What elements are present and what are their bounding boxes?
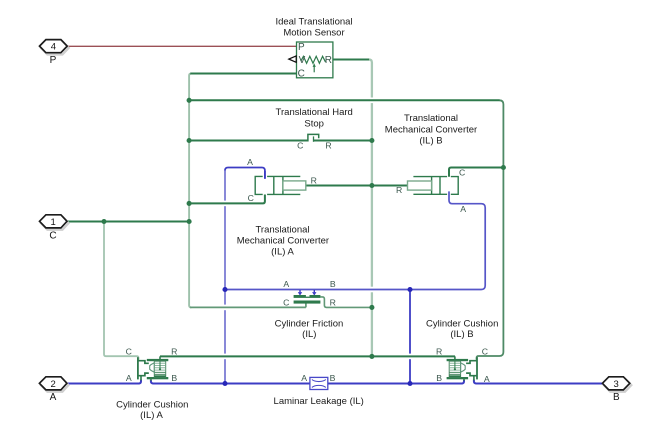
cushion A head bars [147, 359, 169, 361]
port 2 hexagon [39, 377, 67, 390]
wire red P: port 4 to sensor P [67, 45, 296, 47]
svg-text:C: C [482, 346, 488, 356]
svg-text:Ideal Translational: Ideal Translational [275, 17, 352, 28]
junction dot x503.4 y167.5 [501, 165, 506, 170]
svg-text:Laminar Leakage (IL): Laminar Leakage (IL) [274, 396, 364, 407]
wire blue converter A top [225, 168, 265, 179]
converter B rod [408, 181, 432, 190]
wire cushion rod line y=356.4 [160, 355, 455, 357]
svg-text:A: A [283, 279, 289, 289]
svg-text:(IL) A: (IL) A [271, 247, 294, 258]
svg-text:V: V [299, 55, 306, 66]
wire hard stop C side [189, 140, 308, 142]
laminar leakage symbol [301, 373, 335, 390]
cushion B bracket [476, 357, 478, 379]
svg-text:(IL) B: (IL) B [450, 329, 473, 340]
svg-text:B: B [436, 373, 442, 383]
crossing casing at x371.9 y289.5 [366, 287, 377, 293]
wire friction C side [190, 303, 306, 307]
wire pale green vertical x=104 (port1 line down to cushion A C) [104, 223, 139, 360]
cushion A port stems [141, 376, 151, 380]
svg-text:Translational: Translational [404, 113, 458, 124]
op sensor U1: Ideal Translational Motion Sensor block [289, 42, 333, 80]
svg-text:R: R [171, 346, 177, 356]
svg-text:B: B [171, 373, 177, 383]
cushion A pin line [159, 361, 161, 369]
junction dot x189.1 y140.5 [187, 138, 192, 143]
sensor arrow up [313, 67, 315, 73]
cushion B symbol (mirrored) [447, 356, 477, 380]
friction symbol [283, 279, 336, 307]
svg-text:Stop: Stop [304, 118, 324, 129]
port 4 hexagon shadow [41, 41, 69, 54]
junction dot blue x410 y289.5 [407, 287, 412, 292]
svg-text:C: C [459, 167, 465, 177]
wire top horizontal y=100.3 [189, 99, 500, 101]
cushion A bracket [137, 357, 139, 379]
wire mid green vertical x=503.4 (top line down to cushion B C) [477, 100, 504, 359]
friction arrows from blue line [300, 290, 314, 292]
converter A symbol: cylinder with rod to right [247, 157, 317, 203]
port 3 hexagon shadow [604, 379, 631, 392]
converter B piston [432, 177, 440, 195]
svg-text:R: R [325, 140, 331, 150]
svg-text:A: A [460, 204, 466, 214]
cushion A symbol [126, 346, 178, 383]
wire pale green vertical trunk x=371.9 (sensor R down to cushion line) [369, 60, 372, 356]
port 2 hexagon shadow [41, 379, 69, 392]
svg-text:2: 2 [51, 379, 56, 390]
converter B symbol: cylinder with rod to left [396, 167, 466, 214]
cushion B port stems [464, 376, 474, 380]
converter A rod [283, 181, 306, 190]
wire converter A R line [306, 185, 372, 187]
junction dot x371.9 y140.5 [369, 138, 374, 143]
cushion A R stem [159, 356, 161, 359]
wire converter B R line [372, 185, 407, 187]
svg-text:C: C [297, 140, 303, 150]
svg-text:C: C [49, 230, 56, 241]
wire converter A C line [190, 195, 265, 204]
junction dot x189.1 y100.3 [187, 98, 192, 103]
junction dot blue x410 y383.5 [407, 381, 412, 386]
svg-text:Translational: Translational [255, 224, 309, 235]
svg-text:R: R [330, 297, 336, 307]
port 4 hexagon [40, 40, 68, 53]
wire blue vertical x=410 [409, 290, 411, 384]
svg-text:A: A [50, 392, 57, 403]
svg-text:A: A [126, 373, 132, 383]
port 3 hexagon [602, 377, 629, 390]
hard stop symbol [297, 134, 331, 150]
svg-text:3: 3 [613, 379, 618, 390]
svg-text:Mechanical Converter: Mechanical Converter [237, 236, 329, 247]
port 1 hexagon shadow [41, 217, 69, 230]
crossing casing at x410 y356.4 [405, 354, 416, 360]
cushion B hatch [449, 361, 460, 377]
junction dot x189.1 y221.5 [187, 219, 192, 224]
svg-text:C: C [298, 69, 305, 80]
crossing casing at x371.9 y100.3 [366, 98, 377, 104]
crossing casing at x225 y307.4 [220, 305, 231, 311]
svg-text:B: B [613, 392, 620, 403]
wire sensor C to trunk [190, 73, 296, 75]
junction dot x104 y221.5 [101, 219, 106, 224]
svg-text:Motion Sensor: Motion Sensor [283, 28, 344, 39]
cushion A hatch [154, 361, 165, 377]
sensor spring zigzag [301, 56, 326, 63]
wire pale blue vertical x=225 [224, 171, 226, 383]
junction dot x371.9 y356.4 [369, 354, 374, 359]
crossing casing at x225 y203.4 [220, 201, 231, 207]
wire pale green vertical trunk x=189.1 (sensor C down to friction C) [189, 74, 191, 308]
wire hard stop R side [314, 140, 372, 142]
svg-text:Mechanical Converter: Mechanical Converter [385, 124, 477, 135]
wire blue main port2 to port3 segments [67, 380, 141, 384]
wire converter B C line to x=503.4 [449, 168, 503, 177]
port 1 hexagon [40, 215, 68, 228]
cushion B pin line [454, 361, 456, 369]
crossing casing at x225 y356.4 [220, 354, 231, 360]
cushion A poppet [150, 363, 155, 372]
converter A blue stem [264, 171, 266, 179]
svg-text:(IL): (IL) [302, 329, 316, 340]
junction dot x371.9 y307.4 [369, 305, 374, 310]
svg-text:P: P [298, 42, 305, 53]
wire port 1 line [67, 221, 188, 223]
svg-text:P: P [50, 55, 57, 66]
svg-text:4: 4 [51, 42, 56, 53]
svg-text:B: B [330, 373, 336, 383]
svg-text:Translational Hard: Translational Hard [276, 107, 353, 118]
junction dot blue x225 y383.5 [222, 381, 227, 386]
cushion B R stem [454, 356, 456, 359]
svg-text:B: B [330, 279, 336, 289]
svg-text:(IL) B: (IL) B [419, 136, 442, 147]
svg-text:A: A [247, 157, 253, 167]
svg-text:R: R [396, 185, 402, 195]
cushion B head bars [447, 359, 469, 361]
wire sensor R to trunk x=371.9 [333, 59, 369, 61]
friction bottom plate [294, 301, 321, 304]
svg-text:C: C [126, 346, 132, 356]
svg-text:R: R [436, 346, 442, 356]
wire friction R side [320, 297, 371, 308]
junction dot x189.1 y203.4 [187, 201, 192, 206]
junction dot blue x225 y289.5 [222, 287, 227, 292]
svg-text:C: C [248, 193, 254, 203]
sensor V output arrow [289, 56, 296, 62]
junction dot x371.9 y185.5 [369, 183, 374, 188]
svg-text:1: 1 [51, 217, 56, 228]
svg-text:(IL) A: (IL) A [140, 410, 163, 421]
cushion B poppet [461, 363, 466, 372]
svg-text:R: R [311, 176, 317, 186]
converter A piston [274, 176, 283, 194]
svg-text:Cylinder Friction: Cylinder Friction [275, 319, 344, 330]
svg-text:C: C [283, 297, 289, 307]
svg-text:A: A [484, 374, 490, 384]
svg-text:R: R [325, 55, 332, 66]
wire blue friction line and converter B A path [226, 191, 486, 289]
friction top plate [294, 295, 321, 298]
svg-text:A: A [301, 373, 307, 383]
